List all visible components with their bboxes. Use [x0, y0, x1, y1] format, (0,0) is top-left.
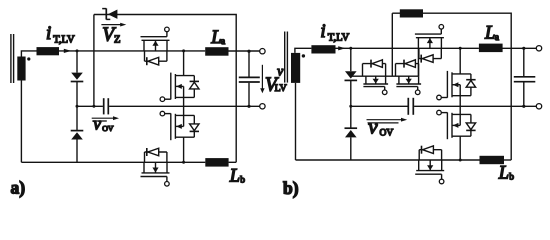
wire zener top rail — [94, 15, 236, 163]
zener diode V_Z — [108, 10, 118, 19]
node — [76, 105, 79, 108]
node — [522, 47, 525, 50]
terminal - (circle) — [536, 104, 541, 109]
wire winding top lead — [21, 51, 36, 57]
wire — [350, 80, 352, 106]
wire common source — [183, 97, 185, 115]
transistor U5 (upper mid leg) — [437, 71, 476, 100]
node — [459, 47, 462, 50]
wire — [229, 161, 237, 163]
svg-text:v: v — [93, 113, 101, 133]
svg-text:OV: OV — [380, 128, 394, 138]
wire bottom rail — [296, 159, 480, 161]
svg-text:Z: Z — [114, 35, 120, 46]
arrow v_OV — [367, 119, 402, 121]
svg-text:OV: OV — [102, 124, 114, 133]
transistor Q4 — [396, 60, 422, 95]
polarity dot — [302, 54, 305, 57]
transistor U2 (upper mid leg) — [160, 73, 199, 102]
node — [182, 49, 185, 52]
wire zener rail riser / cap branch — [93, 15, 95, 107]
node — [182, 161, 185, 164]
wire U3 drain lead — [183, 137, 185, 162]
diode D1 (down) — [345, 71, 357, 78]
svg-text:b): b) — [283, 178, 299, 198]
wire mid rail (v_OV / LV- ) — [77, 105, 103, 107]
arrow v_OV — [92, 117, 114, 119]
svg-text:i: i — [320, 21, 325, 42]
wire mid rail (v_OV / LV-) — [351, 105, 408, 107]
transistor U6 (lower mid leg, mirrored) — [437, 110, 476, 139]
wire winding bottom lead — [20, 81, 22, 163]
inductor L (series, filled) — [37, 47, 60, 55]
svg-text:v: v — [368, 115, 378, 139]
terminal + (circle) — [260, 49, 265, 54]
svg-text:L: L — [229, 166, 240, 186]
diode D2 (up) — [71, 130, 84, 132]
arrow V_Z — [101, 24, 120, 26]
wire cap stem bottom — [248, 83, 250, 107]
wire common source — [459, 96, 461, 115]
inductor L_a — [479, 44, 503, 53]
svg-text:T,LV: T,LV — [53, 34, 75, 45]
wire — [504, 159, 511, 161]
diode D2 (up) — [345, 127, 358, 129]
svg-text:L: L — [210, 28, 221, 48]
wire clamp diode chain — [76, 51, 78, 73]
node — [247, 105, 250, 108]
wire — [76, 140, 78, 163]
wire main top — [336, 47, 479, 49]
svg-text:L: L — [498, 163, 509, 183]
svg-text:i: i — [46, 23, 51, 44]
transformer T core — [10, 34, 12, 83]
transistor Q2 (series, bottom rail) — [141, 148, 170, 186]
terminal + (circle) — [536, 46, 541, 51]
node — [349, 47, 352, 50]
transistor Q1 (series, top path) — [141, 27, 170, 65]
transistor Q3 — [363, 60, 389, 95]
wire — [350, 106, 352, 128]
wire — [76, 82, 78, 107]
wire — [417, 48, 419, 76]
diode D1 (down) — [71, 73, 83, 80]
transistor Q5 (series, top path) — [415, 25, 444, 63]
node — [349, 105, 352, 108]
wire — [350, 137, 352, 160]
inductor clamp (filled, on rail) — [400, 9, 423, 17]
wire clamp rail riser — [391, 13, 393, 76]
svg-text:a): a) — [11, 178, 26, 198]
current arrow i_T,LV — [338, 46, 345, 50]
wire clamp top rail — [392, 13, 511, 160]
wire — [503, 47, 537, 49]
transformer T core — [284, 32, 286, 83]
wire clamp diode chain — [350, 48, 352, 71]
wire U6 drain lead — [459, 136, 461, 160]
svg-text:v: v — [277, 64, 283, 79]
transistor Q6 (series, bottom rail) — [415, 146, 444, 184]
wire cap stem top — [248, 51, 250, 76]
wire main top — [59, 50, 205, 52]
wire winding bottom lead — [295, 83, 297, 160]
wire U5 drain lead — [459, 48, 461, 74]
label v_OV (overline) — [368, 122, 399, 124]
wire U2 drain lead — [183, 51, 185, 76]
wire cap stem bottom — [523, 83, 525, 107]
capacitor C_LV plates — [514, 76, 536, 78]
svg-text:LV: LV — [275, 83, 287, 94]
arrow V_LV — [261, 65, 263, 89]
wire winding top lead — [295, 48, 312, 53]
node — [247, 50, 250, 53]
inductor L_b — [480, 156, 505, 164]
capacitor C_OV plates — [103, 98, 105, 114]
inductor L_b — [205, 158, 228, 167]
wire cap stem top — [523, 48, 525, 76]
svg-text:b: b — [509, 173, 514, 183]
node input junction — [76, 49, 79, 52]
label v_OV (overline) — [92, 120, 107, 122]
node — [92, 105, 95, 108]
terminal - (circle) — [260, 104, 265, 109]
inductor L_a — [205, 47, 228, 56]
capacitor C_LV plates — [239, 76, 260, 78]
wire bottom rail — [21, 161, 205, 163]
node — [522, 105, 525, 108]
transformer T LV winding — [291, 53, 300, 83]
wire — [76, 106, 78, 130]
wire bidirectional-switch branch — [351, 75, 419, 77]
capacitor C_OV plates — [407, 98, 409, 115]
inductor L (series, filled) — [311, 45, 335, 53]
current arrow i_T,LV — [64, 49, 72, 53]
svg-text:b: b — [240, 176, 245, 186]
polarity dot — [27, 57, 30, 60]
transformer T LV winding — [17, 57, 25, 81]
node — [459, 159, 462, 162]
transistor U3 (lower mid leg, mirrored) — [160, 111, 199, 140]
svg-text:T,LV: T,LV — [328, 32, 350, 43]
svg-text:L: L — [484, 24, 495, 44]
